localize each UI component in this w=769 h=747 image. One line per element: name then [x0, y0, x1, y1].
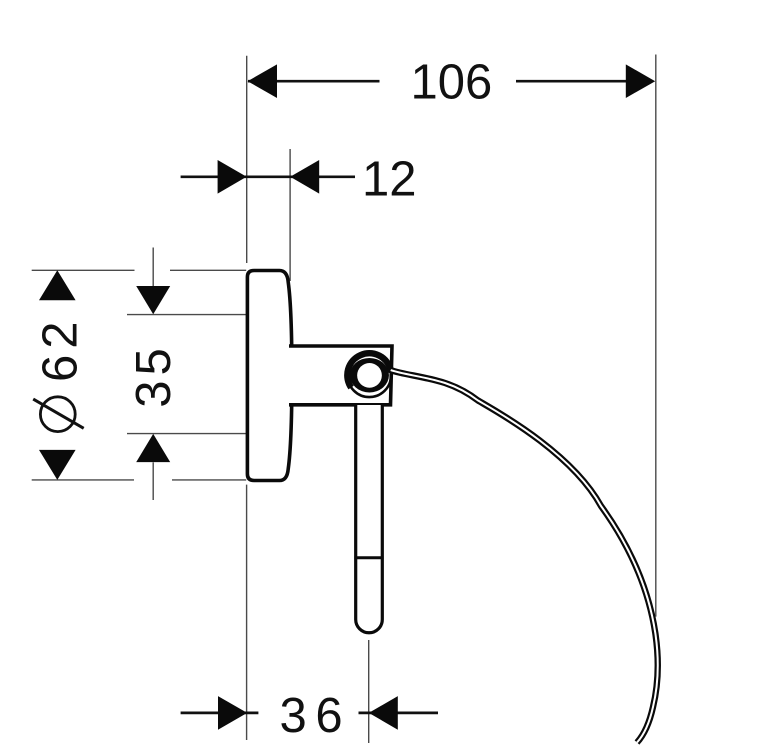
dim 62 bottom line left part [32, 479, 134, 481]
holder arm body [289, 346, 392, 405]
dim 36 left arrowhead [218, 696, 247, 730]
dim 12 line [181, 175, 355, 178]
dim 106 right extension line [655, 55, 657, 617]
svg-text:12: 12 [362, 152, 417, 206]
dim 36 right extension line [368, 640, 370, 743]
dim 62 bottom line right part [172, 479, 246, 481]
pivot ring [350, 358, 389, 393]
dim 35 lower extension line [152, 462, 154, 500]
dim 106 line left segment [248, 80, 380, 83]
dim 106 left extension line [246, 56, 248, 263]
dim 35 down arrowhead [136, 286, 170, 314]
dim 62 down arrowhead [39, 450, 76, 480]
spring wire white core [391, 370, 658, 742]
dim 106 left arrowhead [248, 64, 277, 98]
dim 36 line left segment [181, 712, 259, 715]
dim 62 top line left part [32, 269, 135, 271]
dim 35 upper extension line [152, 248, 154, 287]
dim 35 top line [127, 314, 246, 316]
svg-text:35: 35 [127, 343, 181, 408]
dim 36 right arrowhead [369, 696, 398, 730]
dim 12 extension line [289, 149, 291, 281]
dim 12 left arrowhead [218, 160, 247, 194]
dim 12 right arrowhead [290, 160, 319, 194]
dim 35 up arrowhead [136, 434, 170, 462]
dim 36 line right segment [359, 712, 439, 715]
pivot outer circle [348, 354, 392, 398]
dim 62 up arrowhead [39, 270, 76, 300]
svg-text:62: 62 [34, 315, 88, 382]
holder post [356, 405, 383, 633]
dim 62 top line right part [170, 269, 246, 271]
svg-text:106: 106 [411, 55, 493, 109]
dim 35 bottom line [127, 433, 246, 435]
dim 106 line right segment [516, 80, 626, 83]
post divider line [354, 556, 383, 559]
dim 106 right arrowhead [626, 64, 655, 98]
svg-text:36: 36 [280, 689, 352, 743]
dim 62 diameter symbol circle [40, 397, 75, 432]
dim 62 diameter symbol slash [33, 399, 83, 428]
wall plate [247, 271, 292, 481]
spring wire [347, 353, 658, 742]
dim 36 left extension line [246, 485, 248, 740]
pivot inner hole [357, 363, 382, 388]
